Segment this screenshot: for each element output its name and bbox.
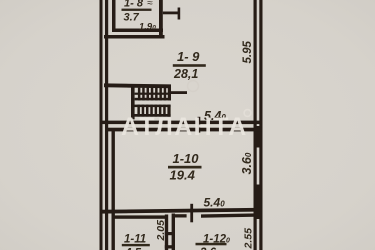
room 1-8 bottom wall inner line bbox=[112, 29, 163, 33]
staircase lower flight bottom edge bbox=[134, 114, 171, 117]
staircase upper flight bottom edge bbox=[135, 98, 171, 101]
room 1-8 fraction bar bbox=[122, 9, 152, 11]
svg-text:АТЛАНТА: АТЛАНТА bbox=[121, 113, 248, 141]
room 1-12 fraction bar bbox=[196, 243, 227, 246]
svg-text:1- 9: 1- 9 bbox=[177, 49, 200, 64]
room 1-10 / 1-11 inner left wall line bbox=[112, 131, 115, 250]
room 1-10 fraction bar bbox=[168, 166, 202, 169]
svg-text:3.7: 3.7 bbox=[124, 12, 140, 24]
room 1-9 fraction bar bbox=[173, 64, 206, 67]
dimension tick on stair hall wall bbox=[198, 117, 201, 133]
room 1-8 left wall bbox=[112, 0, 116, 32]
handwritten labels bbox=[122, 0, 255, 250]
faint watermark circle near stairs bbox=[188, 81, 199, 92]
svg-text:1-11: 1-11 bbox=[124, 234, 146, 246]
staircase lower flight right edge bbox=[167, 105, 170, 117]
svg-text:1-10: 1-10 bbox=[173, 151, 200, 166]
bottom wall of room 1-10 upper line bbox=[100, 208, 263, 214]
wall stair hall / room 1-10 lower line bbox=[105, 128, 263, 132]
svg-text:28,1: 28,1 bbox=[173, 67, 198, 81]
wall between room 1-9 and stair hall bbox=[104, 83, 171, 88]
right wall junction block at bottom wall bbox=[254, 210, 263, 220]
wall stair hall / room 1-10 upper line bbox=[100, 121, 263, 125]
staircase upper flight mid line bbox=[135, 93, 171, 95]
watermark ATLANTA bbox=[121, 113, 248, 141]
bottom wall of room 1-10 lower line, segment A bbox=[112, 215, 166, 218]
svg-text:2.55: 2.55 bbox=[243, 228, 255, 250]
svg-text:2.05: 2.05 bbox=[155, 220, 167, 242]
svg-text:1- 8: 1- 8 bbox=[124, 0, 144, 10]
staircase lower flight top edge bbox=[134, 105, 171, 108]
right wall sill below window 1-10 bbox=[254, 185, 263, 191]
bottom wall of room 1-10 lower line, segment B bbox=[175, 214, 187, 217]
right outer wall (double line) bbox=[254, 0, 257, 250]
svg-text:19.4: 19.4 bbox=[170, 167, 196, 182]
stair handrail stub bbox=[171, 91, 188, 94]
staircase upper flight treads bbox=[138, 88, 141, 101]
dividing wall rooms 1-11 / 1-12 right line bbox=[172, 214, 175, 250]
right wall solid pier above window 1-10 bbox=[254, 126, 263, 148]
dividing wall tie upper bbox=[165, 232, 175, 235]
dividing wall tie lower bbox=[165, 245, 175, 248]
svg-text:5.95: 5.95 bbox=[242, 41, 254, 64]
bottom wall of room 1-10 lower line, segment C bbox=[201, 213, 263, 218]
watermark circle mark bbox=[244, 110, 251, 117]
staircase upper flight right edge bbox=[168, 88, 171, 101]
staircase lower flight treads bbox=[137, 105, 140, 117]
dimension tick right of room 1-8 bbox=[163, 12, 180, 15]
stairwell left wall bbox=[131, 87, 135, 119]
right wall pier segment bbox=[255, 191, 261, 210]
left outer wall (double line) bbox=[100, 0, 103, 250]
dividing wall rooms 1-11 / 1-12 left line bbox=[165, 215, 168, 250]
room 1-8 right wall bbox=[159, 0, 163, 39]
dimension tick on bottom wall bbox=[190, 204, 193, 223]
room 1-8 bottom wall outer line bbox=[104, 35, 165, 39]
svg-text:≈: ≈ bbox=[147, 0, 153, 9]
room 1-11 fraction bar bbox=[122, 244, 150, 246]
